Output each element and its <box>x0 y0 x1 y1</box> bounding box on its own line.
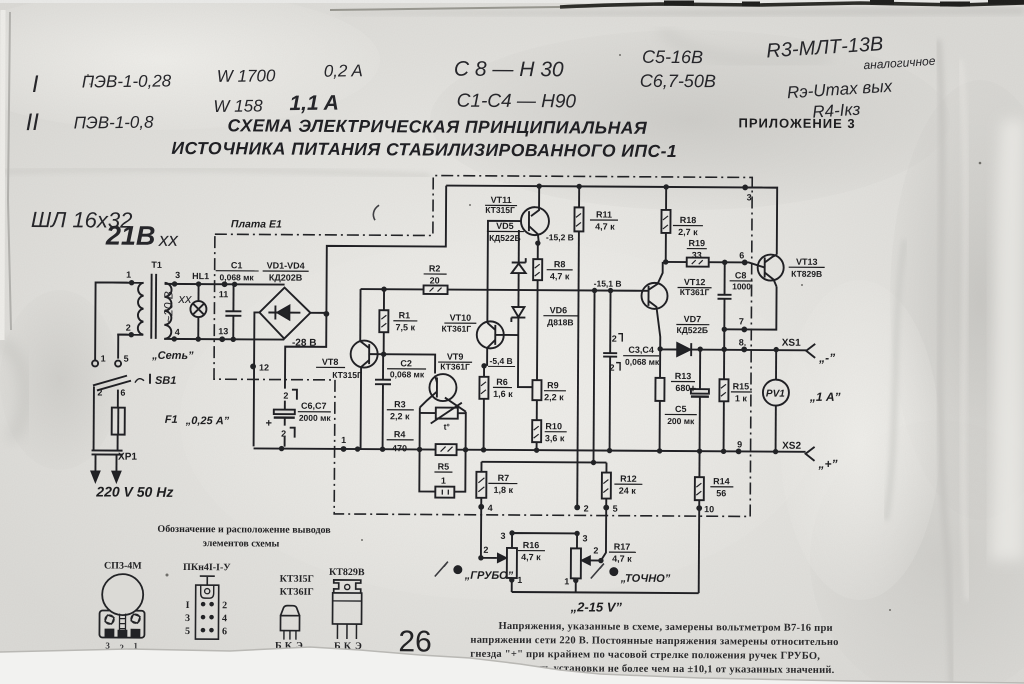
wire primary top <box>96 281 144 283</box>
svg-text:ХР1: ХР1 <box>118 452 137 463</box>
connector XS1 <box>806 344 815 358</box>
svg-text:„ТОЧНО”: „ТОЧНО” <box>620 573 671 585</box>
svg-text:XS2: XS2 <box>782 441 801 452</box>
svg-text:24 к: 24 к <box>619 486 637 496</box>
svg-text:10: 10 <box>704 504 714 514</box>
svg-text:4,7 к: 4,7 к <box>521 552 541 562</box>
ammeter PV1 <box>763 350 790 452</box>
svg-text:II: II <box>25 109 39 136</box>
svg-text:1: 1 <box>517 575 522 585</box>
svg-text:8: 8 <box>739 337 744 347</box>
transformer secondary winding <box>164 283 171 339</box>
svg-text:элементов схемы: элементов схемы <box>203 538 280 549</box>
resistor R8 <box>532 243 542 380</box>
svg-text:1,6 к: 1,6 к <box>493 389 513 399</box>
svg-text:VT12: VT12 <box>684 277 706 287</box>
svg-text:VD5: VD5 <box>496 221 514 231</box>
svg-text:2,2 к: 2,2 к <box>390 411 410 421</box>
svg-text:5: 5 <box>613 504 618 514</box>
svg-text:2: 2 <box>610 363 615 373</box>
knob ГРУБО <box>435 562 514 582</box>
svg-text:С2: С2 <box>400 358 412 368</box>
svg-text:С8: С8 <box>735 270 747 280</box>
svg-text:„ГРУБО”: „ГРУБО” <box>464 570 514 582</box>
svg-text:С1: С1 <box>231 260 243 270</box>
svg-text:0,068 мк: 0,068 мк <box>219 272 254 282</box>
svg-text:R12: R12 <box>620 474 637 484</box>
transistor VT9 <box>420 374 466 412</box>
wire secondary top rail to bridge <box>165 283 285 286</box>
switch ПКн4I-I-У drawing <box>183 562 232 639</box>
svg-text:R17: R17 <box>614 542 631 552</box>
lamp HL1 <box>190 284 206 339</box>
svg-text:С3,С4: С3,С4 <box>628 345 654 355</box>
svg-text:„1 А”: „1 А” <box>809 390 841 404</box>
svg-text:-5,4 В: -5,4 В <box>490 356 513 366</box>
svg-text:1: 1 <box>126 270 131 280</box>
svg-text:R10: R10 <box>545 421 562 431</box>
svg-text:4,7 к: 4,7 к <box>550 271 570 281</box>
svg-text:„2-15 V”: „2-15 V” <box>570 599 623 614</box>
transistor КТ315Г/КТ361Г package drawing <box>275 574 314 652</box>
svg-text:„+”: „+” <box>817 457 837 471</box>
svg-text:VT8: VT8 <box>322 357 339 367</box>
svg-text:2: 2 <box>612 334 617 344</box>
svg-text:гнезда "+" при крайнем по часо: гнезда "+" при крайнем по часовой стрелк… <box>470 649 820 662</box>
svg-text:С5-16В: С5-16В <box>642 47 703 67</box>
potentiometer R16 <box>481 507 578 593</box>
svg-text:Плата Е1: Плата Е1 <box>231 218 282 230</box>
svg-text:2000 мк: 2000 мк <box>299 413 332 423</box>
diode VD7 <box>660 343 806 357</box>
resistor R7 <box>476 462 486 507</box>
svg-text:КТ3I5Г: КТ3I5Г <box>280 574 314 585</box>
svg-text:F1: F1 <box>165 414 178 426</box>
svg-text:С 8 — Н 30: С 8 — Н 30 <box>454 58 564 82</box>
wire VT11 base column down to VT10 <box>487 221 521 323</box>
wire pin7 rail <box>724 286 776 329</box>
paper grain <box>0 0 1 1</box>
svg-text:ПЭВ-1-0,8: ПЭВ-1-0,8 <box>74 113 155 133</box>
svg-text:+: + <box>265 417 272 429</box>
svg-text:С1-С4 — Н90: С1-С4 — Н90 <box>457 91 577 113</box>
torn dark top edge <box>0 0 1024 3</box>
svg-text:2: 2 <box>97 387 102 397</box>
wire R11 bottom down to pin 2 <box>577 231 579 507</box>
svg-text:1000: 1000 <box>732 281 751 291</box>
svg-text:2: 2 <box>584 503 589 513</box>
svg-text:t°: t° <box>444 422 451 432</box>
svg-text:1: 1 <box>564 576 569 586</box>
svg-text:R18: R18 <box>680 215 697 225</box>
resistor R9 <box>532 380 541 420</box>
wire bridge plus output to pin12 column <box>254 312 260 446</box>
resistor R4 (in rail) <box>436 444 457 455</box>
svg-text:2: 2 <box>126 323 131 333</box>
svg-text:R16: R16 <box>523 540 540 550</box>
svg-text:SB1: SB1 <box>155 375 176 387</box>
stray pen mark <box>373 205 379 220</box>
svg-text:„0,25 А”: „0,25 А” <box>185 415 230 427</box>
svg-text:7,5 к: 7,5 к <box>396 322 416 332</box>
svg-text:1,8 к: 1,8 к <box>494 485 514 495</box>
capacitor C8 and resistor R15 column <box>717 262 732 451</box>
svg-text:Обозначение и расположение выв: Обозначение и расположение выводов <box>157 524 331 536</box>
wire common bottom rail <box>254 448 806 451</box>
svg-text:1: 1 <box>341 435 346 445</box>
svg-text:R1: R1 <box>399 310 411 320</box>
svg-text:КД202В: КД202В <box>269 273 303 283</box>
svg-text:напряжении сети 220 В. Постоян: напряжении сети 220 В. Постоянные напряж… <box>470 635 838 648</box>
transistor VT10 <box>477 321 504 366</box>
svg-text:-28 В: -28 В <box>292 338 317 349</box>
svg-text:R13: R13 <box>675 371 692 381</box>
svg-text:R5: R5 <box>438 462 450 472</box>
svg-text:VD7: VD7 <box>684 314 702 324</box>
svg-text:VT9: VT9 <box>447 352 464 362</box>
svg-text:2: 2 <box>483 545 488 555</box>
switch SB1 <box>92 360 150 390</box>
wire bridge minus output -28V <box>310 185 446 315</box>
svg-text:W 158: W 158 <box>213 96 263 116</box>
svg-text:С5: С5 <box>675 404 687 414</box>
transistor КТ829В package drawing <box>329 567 365 652</box>
svg-text:I: I <box>186 600 190 611</box>
transistor VT8 <box>350 341 378 450</box>
resistor R5 <box>435 487 454 498</box>
svg-text:220 V 50 Hz: 220 V 50 Hz <box>95 483 173 499</box>
svg-text:4: 4 <box>175 327 180 337</box>
svg-text:3: 3 <box>175 270 180 280</box>
svg-text:PV1: PV1 <box>766 389 785 400</box>
svg-text:5: 5 <box>185 626 190 637</box>
transformer primary winding <box>138 283 144 335</box>
svg-text:VT10: VT10 <box>450 313 472 323</box>
svg-text:4: 4 <box>488 503 493 513</box>
svg-text:хх: хх <box>177 291 192 306</box>
svg-text:6: 6 <box>120 388 125 398</box>
svg-text:2: 2 <box>283 391 288 401</box>
svg-text:СП3-4М: СП3-4М <box>104 561 142 572</box>
wire -15,1 to lower net <box>593 291 594 463</box>
resistor R2 <box>424 285 448 294</box>
svg-text:3: 3 <box>501 531 506 541</box>
resistor R13 <box>655 349 665 451</box>
wire mains right pole <box>118 335 131 359</box>
svg-text:9: 9 <box>737 439 742 449</box>
handwritten resistor notes <box>766 30 939 125</box>
svg-text:-15,1 В: -15,1 В <box>594 278 622 288</box>
svg-text:С6,С7: С6,С7 <box>301 401 327 411</box>
svg-text:3: 3 <box>185 613 190 624</box>
svg-text:R19: R19 <box>689 238 706 248</box>
svg-text:HL1: HL1 <box>192 271 209 281</box>
svg-text:56: 56 <box>716 488 726 498</box>
board outline Плата Е1 (dash-dot) <box>213 174 752 516</box>
resistor R18 <box>661 187 670 262</box>
svg-text:ПРИЛОЖЕНИЕ 3: ПРИЛОЖЕНИЕ 3 <box>739 115 856 131</box>
svg-text:~20 В: ~20 В <box>161 291 175 323</box>
svg-text:6: 6 <box>739 250 744 260</box>
svg-text:2,7 к: 2,7 к <box>678 227 698 237</box>
svg-text:Т1: Т1 <box>151 260 162 270</box>
wire secondary bottom rail to bridge <box>164 338 284 341</box>
R3/R4/R5 loop right wire <box>454 412 465 492</box>
wire VT8 base to R1 bottom and VT9 <box>369 354 435 373</box>
scattered specks <box>87 54 981 611</box>
svg-text:5: 5 <box>124 354 129 364</box>
creases on right side <box>938 40 952 684</box>
svg-text:VT11: VT11 <box>491 195 512 205</box>
svg-text:2: 2 <box>281 429 286 439</box>
svg-text:КТ829В: КТ829В <box>791 269 822 279</box>
svg-text:6: 6 <box>222 626 227 637</box>
svg-text:„Сеть”: „Сеть” <box>151 350 194 362</box>
wire mains left pole <box>95 282 131 361</box>
svg-text:2: 2 <box>593 546 598 556</box>
wire fuse to plug <box>117 435 119 451</box>
svg-text:33: 33 <box>692 250 702 260</box>
svg-text:0,2 A: 0,2 A <box>324 61 363 80</box>
R3/R4/R5 loop left wire <box>419 407 436 491</box>
capacitor C5 <box>691 349 710 451</box>
fuse F1 <box>112 408 125 435</box>
svg-text:ИСТОЧНИКА ПИТАНИЯ СТАБИЛИЗИРОВ: ИСТОЧНИКА ПИТАНИЯ СТАБИЛИЗИРОВАННОГО ИПС… <box>171 138 677 161</box>
svg-text:1 к: 1 к <box>735 393 748 403</box>
svg-text:20: 20 <box>430 275 440 285</box>
potentiometer СП3-4М drawing <box>99 560 144 637</box>
diode bridge VD1-VD4 <box>259 287 310 338</box>
wire to fuse <box>117 390 119 408</box>
svg-text:VT13: VT13 <box>796 257 818 267</box>
junction dots right <box>575 183 780 466</box>
svg-text:+: + <box>690 383 697 395</box>
svg-text:КД522Б: КД522Б <box>677 325 709 335</box>
svg-text:3,6 к: 3,6 к <box>545 433 565 443</box>
svg-text:КТ361Г: КТ361Г <box>680 287 710 297</box>
junction dots center <box>279 182 542 453</box>
thermistor R3 t° <box>420 402 466 423</box>
zener VD6 <box>511 307 532 387</box>
svg-text:R11: R11 <box>596 210 612 220</box>
junction dots bottom <box>478 504 702 584</box>
svg-text:3: 3 <box>747 192 752 202</box>
capacitor C3,C4 <box>603 291 618 451</box>
svg-text:ПЭВ-1-0,28: ПЭВ-1-0,28 <box>82 71 172 91</box>
potentiometer R17 <box>571 507 607 592</box>
wire rail corner down to VT8 collector <box>359 289 361 341</box>
svg-text:4: 4 <box>222 613 227 624</box>
zener VD5 <box>511 230 525 307</box>
svg-text:Д818В: Д818В <box>547 317 573 327</box>
svg-text:КТ361Г: КТ361Г <box>441 324 471 334</box>
svg-text:R7: R7 <box>498 473 510 483</box>
wire feedback net R7-R12 <box>481 461 606 464</box>
svg-text:470: 470 <box>392 443 407 453</box>
svg-text:Напряжения, указанные в схеме,: Напряжения, указанные в схеме, замерены … <box>498 621 832 634</box>
transistor VT11 <box>521 186 549 243</box>
svg-text:4,7 к: 4,7 к <box>612 554 632 564</box>
svg-text:„-”: „-” <box>818 351 835 365</box>
svg-text:-15,2 В: -15,2 В <box>546 232 574 242</box>
svg-text:2,2 к: 2,2 к <box>544 392 564 402</box>
resistor R6 <box>479 366 489 450</box>
svg-text:1: 1 <box>441 476 446 486</box>
svg-text:2: 2 <box>222 600 227 611</box>
wire primary bottom <box>117 334 143 336</box>
svg-text:680: 680 <box>675 383 690 393</box>
wire R2 / -15,1V rail <box>361 289 649 291</box>
wire top rail to VT13 collector <box>745 187 777 254</box>
svg-text:VD6: VD6 <box>550 305 568 315</box>
capacitor C1 <box>225 284 241 339</box>
svg-text:R3: R3 <box>394 399 406 409</box>
svg-text:ПКн4I-I-У: ПКн4I-I-У <box>183 562 231 573</box>
svg-text:I: I <box>32 71 39 98</box>
wire VT10 base to VD6 column <box>495 334 518 336</box>
svg-text:R14: R14 <box>713 476 730 486</box>
connector XS2 <box>806 447 815 461</box>
svg-text:1,1 A: 1,1 A <box>289 92 339 116</box>
plug XP1 <box>91 450 122 481</box>
capacitor C2 <box>375 354 392 449</box>
svg-text:КТ361Г: КТ361Г <box>440 362 470 372</box>
svg-text:11: 11 <box>219 289 229 299</box>
knob ТОЧНО <box>591 563 671 584</box>
svg-text:КД522Б: КД522Б <box>489 233 521 243</box>
svg-text:СХЕМА ЭЛЕКТРИЧЕСКАЯ ПРИНЦИПИАЛ: СХЕМА ЭЛЕКТРИЧЕСКАЯ ПРИНЦИПИАЛЬНАЯ <box>227 115 647 138</box>
transformer T1 core <box>150 274 152 339</box>
handwritten note line II <box>25 92 339 137</box>
svg-text:21В: 21В <box>105 221 156 251</box>
wire -28V down to C6,C7 <box>285 314 326 389</box>
svg-text:R6: R6 <box>496 377 508 387</box>
wire top -28V rail <box>446 186 777 188</box>
svg-text:R2: R2 <box>429 263 441 273</box>
resistor R1 <box>379 289 388 354</box>
junction dots mains <box>128 280 329 370</box>
wire output loop bottom <box>512 592 699 593</box>
resistor R11 <box>574 186 583 231</box>
svg-text:R15: R15 <box>733 381 750 391</box>
resistor R19 <box>666 257 765 267</box>
resistor R14 <box>695 451 704 508</box>
svg-text:200 мк: 200 мк <box>667 416 695 426</box>
wire to plug left <box>93 386 95 450</box>
svg-text:КТ36IГ: КТ36IГ <box>280 587 314 598</box>
capacitor C6,C7 <box>274 390 297 447</box>
svg-text:КТ315Г: КТ315Г <box>485 205 515 215</box>
svg-text:XS1: XS1 <box>782 338 801 349</box>
svg-text:0,068 мк: 0,068 мк <box>625 357 660 367</box>
svg-text:7: 7 <box>739 316 744 326</box>
resistor R12 <box>602 463 611 508</box>
svg-text:4,7 к: 4,7 к <box>595 222 615 232</box>
transistor VT12 <box>641 262 668 349</box>
transistor VT13 <box>758 254 784 286</box>
svg-text:R4: R4 <box>394 429 406 439</box>
left paper edge <box>8 12 11 330</box>
svg-text:КТ829В: КТ829В <box>329 567 365 578</box>
svg-text:хх: хх <box>158 230 180 251</box>
svg-text:КТ315Г: КТ315Г <box>332 370 362 380</box>
resistor R10 <box>532 420 541 450</box>
svg-text:R9: R9 <box>547 380 559 390</box>
svg-text:3: 3 <box>582 533 587 543</box>
wire pin10 down to output loop <box>698 508 701 593</box>
right torn edge light zone <box>990 120 1024 560</box>
svg-text:12: 12 <box>259 362 269 372</box>
svg-text:R8: R8 <box>554 259 566 269</box>
svg-text:13: 13 <box>218 326 228 336</box>
torn bottom paper edge / scanner background <box>0 647 1024 684</box>
svg-text:W 1700: W 1700 <box>217 66 276 86</box>
handwritten note line I <box>32 61 363 98</box>
svg-text:VD1-VD4: VD1-VD4 <box>267 260 305 270</box>
svg-text:С6,7-50В: С6,7-50В <box>640 71 716 91</box>
svg-text:1: 1 <box>101 353 106 363</box>
svg-text:0,068 мк: 0,068 мк <box>390 369 425 379</box>
